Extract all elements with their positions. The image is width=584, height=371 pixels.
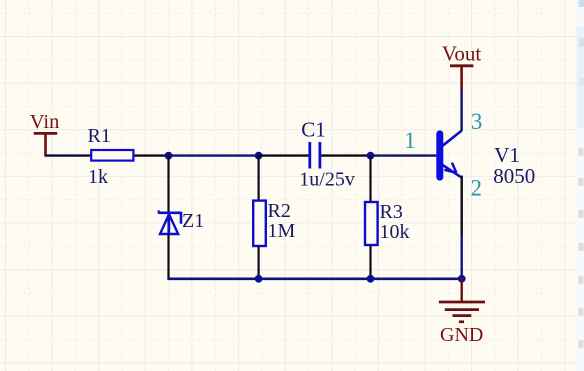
svg-text:1: 1: [404, 128, 416, 153]
pin number 1: [404, 128, 416, 153]
label R3: [380, 201, 403, 223]
svg-text:GND: GND: [440, 324, 483, 346]
label C1: [301, 117, 326, 141]
label Z1: [182, 210, 204, 232]
port Vin label: [30, 111, 60, 133]
resistor R2: [253, 201, 266, 246]
svg-text:1u/25v: 1u/25v: [299, 168, 355, 190]
ground stub wire: [461, 279, 463, 302]
bottom rail wire: [167, 277, 461, 280]
resistor R1: [91, 150, 133, 161]
node A junction dot: [165, 152, 173, 160]
port Vout label: [442, 41, 481, 65]
wire node A down to Z1: [167, 156, 169, 213]
svg-text:Z1: Z1: [182, 210, 204, 232]
value 1M: [268, 220, 296, 242]
node B junction dot: [255, 152, 263, 160]
junction dot bottom R3: [367, 275, 375, 283]
junction dot bottom emitter: [458, 275, 466, 283]
svg-text:Vin: Vin: [30, 111, 60, 133]
zener diode Z1: [158, 210, 181, 235]
ground symbol: [439, 302, 485, 322]
wire R2 down to bottom rail: [258, 246, 260, 279]
capacitor C1: [310, 142, 320, 169]
wire Vin to R1: [45, 154, 91, 156]
wire node A to node B: [169, 154, 259, 156]
label R1: [88, 125, 111, 147]
svg-text:R3: R3: [380, 201, 403, 223]
wire node B to C1: [259, 154, 309, 156]
wire emitter down to bottom rail: [461, 176, 463, 279]
svg-text:R1: R1: [88, 125, 111, 147]
svg-text:3: 3: [471, 109, 483, 134]
wire node C to Q1 base: [371, 154, 437, 156]
value 8050: [493, 164, 535, 188]
label V1: [494, 143, 520, 167]
svg-text:2: 2: [471, 176, 483, 201]
value 1k: [88, 166, 108, 188]
svg-text:R2: R2: [268, 200, 291, 222]
port Vin symbol: [34, 133, 57, 155]
pin number 2: [471, 176, 483, 201]
right edge window artifact strip: [577, 0, 584, 371]
wire node C down to R3: [369, 156, 371, 202]
ground GND label: [440, 324, 483, 346]
wire Z1 down to bottom rail: [167, 234, 169, 280]
svg-text:Vout: Vout: [442, 41, 481, 65]
wire collector up to Vout: [460, 89, 462, 132]
wire R1 to node A: [135, 154, 169, 156]
pin number 3: [471, 109, 483, 134]
wire node B down to R2: [258, 156, 260, 201]
junction dot bottom R2: [255, 275, 263, 283]
value 10k: [380, 221, 410, 243]
wire R3 down to bottom rail: [369, 246, 371, 279]
label R2: [268, 200, 291, 222]
node C junction dot: [367, 152, 375, 160]
resistor R3: [365, 202, 378, 245]
svg-text:8050: 8050: [493, 164, 535, 188]
transistor V1 (NPN 8050): [436, 130, 461, 180]
svg-text:1k: 1k: [88, 166, 108, 188]
svg-text:1M: 1M: [268, 220, 296, 242]
port Vout symbol: [450, 66, 473, 90]
svg-text:10k: 10k: [380, 221, 410, 243]
wire C1 to node C: [321, 154, 370, 156]
svg-text:C1: C1: [301, 117, 326, 141]
value 1u/25v: [299, 168, 355, 190]
